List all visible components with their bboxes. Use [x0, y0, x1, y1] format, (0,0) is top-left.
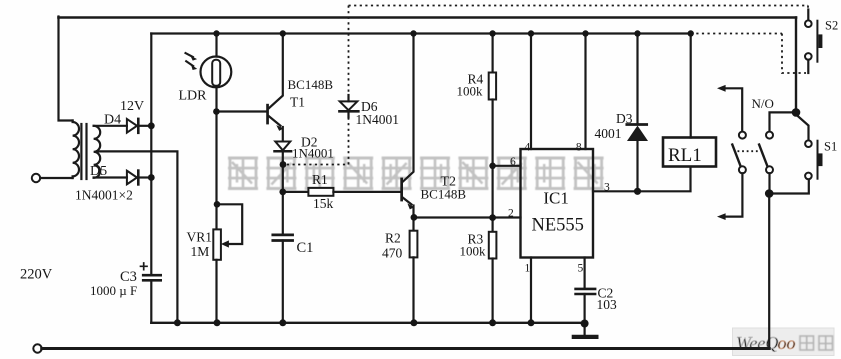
svg-text:1N4001: 1N4001: [356, 112, 400, 127]
svg-text:T1: T1: [290, 95, 305, 110]
svg-text:D5: D5: [90, 164, 107, 179]
svg-text:470: 470: [382, 246, 403, 261]
svg-text:LDR: LDR: [179, 89, 208, 104]
svg-text:1: 1: [525, 263, 531, 275]
svg-text:R2: R2: [385, 231, 401, 246]
svg-text:1N4001×2: 1N4001×2: [75, 188, 133, 203]
svg-text:100k: 100k: [457, 84, 484, 99]
svg-text:VR1: VR1: [187, 230, 213, 245]
svg-text:BC148B: BC148B: [421, 187, 467, 202]
svg-text:RL1: RL1: [668, 145, 702, 166]
svg-text:1N4001: 1N4001: [292, 146, 334, 161]
svg-text:S1: S1: [824, 140, 837, 154]
svg-text:3: 3: [604, 182, 610, 194]
svg-text:100k: 100k: [460, 244, 487, 259]
svg-text:BC148B: BC148B: [288, 77, 334, 92]
svg-text:4001: 4001: [595, 126, 622, 141]
svg-text:C1: C1: [297, 240, 314, 256]
svg-text:8: 8: [576, 142, 582, 154]
svg-text:103: 103: [597, 297, 618, 312]
svg-text:6: 6: [510, 156, 516, 168]
svg-text:1000 µ F: 1000 µ F: [90, 283, 137, 298]
svg-text:N/O: N/O: [752, 96, 774, 111]
svg-text:IC1: IC1: [543, 189, 569, 208]
svg-text:15k: 15k: [313, 196, 334, 211]
svg-text:R1: R1: [312, 172, 328, 187]
svg-text:D4: D4: [104, 113, 121, 128]
svg-text:D3: D3: [616, 111, 633, 126]
svg-text:220V: 220V: [20, 267, 53, 283]
svg-text:NE555: NE555: [532, 216, 584, 236]
svg-text:5: 5: [578, 263, 584, 275]
svg-text:4: 4: [525, 142, 531, 154]
svg-text:1M: 1M: [191, 244, 210, 259]
svg-text:12V: 12V: [120, 99, 144, 114]
svg-text:S2: S2: [825, 19, 838, 33]
svg-text:oo: oo: [778, 333, 796, 353]
svg-text:2: 2: [508, 208, 514, 220]
